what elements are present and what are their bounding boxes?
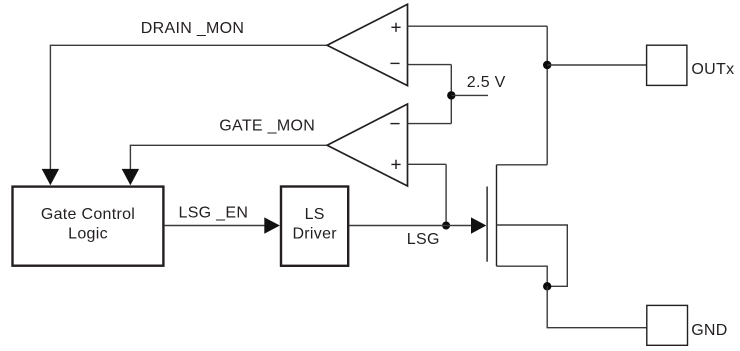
op-amp U1 drain monitor comparator bbox=[327, 4, 407, 85]
svg-text:DRAIN _MON: DRAIN _MON bbox=[141, 20, 244, 37]
wire U1 noninverting input to drain node bbox=[408, 25, 548, 27]
terminal GND bbox=[647, 305, 688, 345]
wire LSG_EN (Gate Control Logic to LS Driver) bbox=[165, 225, 266, 227]
svg-text:OUTx: OUTx bbox=[691, 61, 734, 78]
node junction dot at OUTx branch bbox=[543, 61, 551, 69]
wire U2 + input down to LSG node bbox=[445, 164, 447, 225]
wire GATE_MON net (U2 output to Gate Control Logic) bbox=[130, 145, 327, 172]
svg-text:LS: LS bbox=[305, 206, 325, 223]
wire U2 inverting input bbox=[408, 123, 452, 125]
wire DRAIN_MON net (U1 output to Gate Control Logic) bbox=[50, 45, 327, 172]
arrowhead LSG into MOSFET gate bbox=[471, 217, 486, 233]
svg-text:LSG _EN: LSG _EN bbox=[179, 205, 249, 222]
wire to OUTx terminal bbox=[547, 64, 646, 66]
svg-text:LSG: LSG bbox=[407, 231, 440, 248]
U2 inverting - pin mark bbox=[390, 123, 399, 125]
svg-text:2.5 V: 2.5 V bbox=[467, 74, 506, 91]
arrowhead LSG_EN into LS Driver bbox=[264, 217, 280, 233]
node junction dot 2.5V reference bbox=[447, 91, 455, 99]
wire M1 source lead bbox=[497, 266, 548, 286]
wire drain node vertical bbox=[546, 26, 548, 165]
svg-text:GATE _MON: GATE _MON bbox=[219, 118, 315, 135]
wire LSG (LS Driver to M1 gate) bbox=[349, 225, 472, 227]
wire 2.5V stub bbox=[451, 94, 488, 96]
node junction dot source/GND bbox=[543, 282, 551, 290]
arrowhead DRAIN_MON into Gate Control Logic bbox=[42, 169, 59, 185]
wire 2.5V reference vertical bbox=[450, 65, 452, 124]
wire M1 drain lead bbox=[497, 164, 548, 166]
op-amp U2 gate monitor comparator bbox=[327, 104, 407, 186]
transistor M1 low-side NMOS bbox=[487, 165, 496, 266]
M1 gate bar bbox=[486, 187, 488, 262]
svg-text:Gate Control: Gate Control bbox=[41, 206, 135, 223]
arrowhead GATE_MON into Gate Control Logic bbox=[122, 169, 139, 185]
block Gate Control Logic bbox=[13, 187, 164, 266]
wire U1 inverting input bbox=[408, 64, 452, 66]
wire M1 body/sense lead bbox=[497, 225, 568, 286]
M1 drain-source bar bbox=[496, 165, 498, 266]
block LS Driver bbox=[281, 187, 348, 266]
svg-text:Logic: Logic bbox=[68, 225, 108, 242]
wire U2 noninverting input bbox=[408, 163, 447, 165]
svg-text:Driver: Driver bbox=[292, 225, 337, 242]
wire to GND terminal bbox=[547, 286, 647, 327]
node junction dot LSG bbox=[442, 222, 450, 230]
U1 noninverting + pin mark bbox=[391, 23, 400, 32]
U1 inverting - pin mark bbox=[390, 62, 399, 64]
terminal OUTx bbox=[647, 45, 687, 85]
U2 noninverting + pin mark bbox=[391, 160, 400, 169]
svg-text:GND: GND bbox=[691, 322, 727, 339]
